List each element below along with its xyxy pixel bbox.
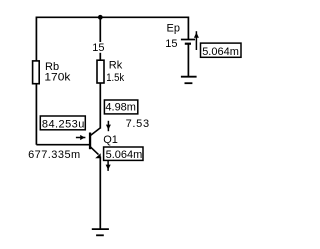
svg-text:7.53: 7.53 bbox=[126, 118, 150, 130]
svg-text:1.5k: 1.5k bbox=[106, 72, 124, 84]
svg-text:Ep: Ep bbox=[167, 22, 180, 34]
svg-text:170k: 170k bbox=[44, 72, 71, 84]
svg-text:5.064m: 5.064m bbox=[202, 46, 239, 58]
svg-text:Q1: Q1 bbox=[103, 134, 118, 146]
svg-text:84.253u: 84.253u bbox=[42, 118, 85, 130]
svg-text:677.335m: 677.335m bbox=[28, 149, 81, 161]
svg-text:Rk: Rk bbox=[109, 59, 123, 71]
svg-text:15: 15 bbox=[165, 38, 177, 50]
svg-text:15: 15 bbox=[92, 42, 104, 54]
svg-text:5.064m: 5.064m bbox=[106, 149, 143, 161]
svg-text:4.98m: 4.98m bbox=[105, 101, 136, 113]
